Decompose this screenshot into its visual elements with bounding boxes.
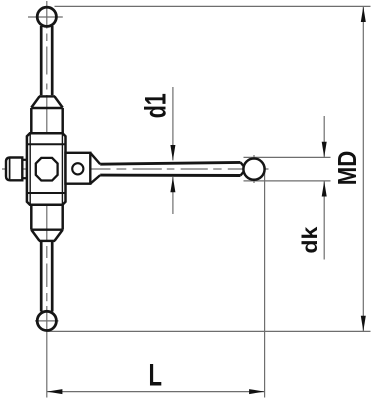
bottom stem — [40, 241, 43, 312]
block chamfer line left — [29, 134, 31, 204]
extension line bottom (MD) — [48, 330, 371, 332]
bottom ball — [37, 311, 56, 330]
d1 dimension line lower — [172, 177, 174, 214]
arm taper to ball bottom — [241, 172, 244, 176]
neck top — [22, 159, 27, 161]
MD arrow top — [361, 7, 366, 22]
top stem — [40, 26, 43, 95]
d1 arrow top — [170, 145, 175, 160]
extension line dk top — [244, 156, 331, 158]
svg-text:dk: dk — [298, 227, 322, 254]
MD dimension line — [362, 6, 364, 331]
vertical centerline — [46, 1, 48, 334]
arm cone bottom — [90, 175, 100, 184]
cone base line — [31, 107, 62, 109]
neck bottom — [22, 177, 27, 179]
thread inner line — [9, 159, 11, 180]
bottom ball crosshair — [35, 320, 59, 322]
lower cone — [31, 230, 39, 241]
top ball crosshair — [28, 16, 63, 18]
arm block hole — [72, 163, 83, 174]
central block — [27, 133, 66, 204]
block inner band bottom — [27, 192, 66, 194]
block inner band top — [27, 143, 66, 145]
dk dimension line lower — [323, 181, 325, 260]
block chamfer line right — [61, 134, 63, 204]
dk arrow top — [322, 142, 327, 157]
MD arrow bottom — [361, 316, 366, 331]
arm block — [66, 153, 91, 184]
L arrow right — [249, 389, 265, 394]
L arrow left — [47, 389, 63, 394]
right ball crosshair vertical — [253, 155, 255, 183]
dk arrow bottom — [322, 181, 327, 196]
L dimension line — [47, 391, 265, 393]
hex socket octagon — [36, 158, 58, 181]
top shoulder — [39, 95, 55, 97]
arm taper to ball top — [241, 162, 244, 166]
dk dimension line upper — [323, 116, 325, 157]
lower cylinder base — [31, 228, 62, 230]
L extension right — [264, 170, 266, 398]
d1 dimension line upper — [172, 87, 174, 160]
upper cylinder — [30, 108, 33, 133]
horizontal centerline — [2, 168, 269, 170]
svg-text:MD: MD — [332, 151, 362, 186]
thread screw body — [6, 158, 22, 181]
svg-text:L: L — [149, 356, 163, 392]
d1 arrow bottom — [170, 177, 175, 192]
top ball — [37, 7, 56, 26]
arm tube bottom — [100, 174, 240, 177]
lower shoulder — [39, 240, 55, 242]
lower cylinder — [30, 205, 33, 230]
L extension left — [46, 334, 48, 398]
right ball — [243, 159, 264, 180]
arm cone top — [90, 153, 100, 164]
extension line dk bottom — [244, 180, 331, 182]
top cone — [31, 96, 39, 107]
svg-text:d1: d1 — [140, 93, 173, 118]
extension line top (MD) — [55, 5, 371, 7]
arm tube top — [100, 162, 240, 164]
